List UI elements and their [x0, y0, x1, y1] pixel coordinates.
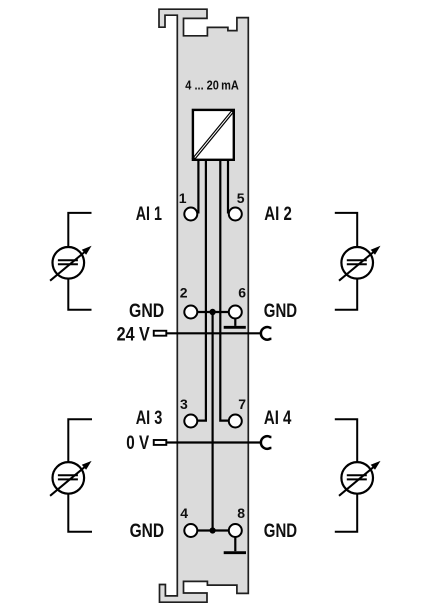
- terminal 4 contact: [184, 524, 197, 537]
- socket contact (24V rail, open semicircle): [261, 327, 272, 340]
- junction dot node GND row 4/8: [210, 527, 216, 533]
- svg-text:24 V: 24 V: [117, 323, 150, 345]
- 0V terminal box symbol: [154, 440, 167, 445]
- svg-text:AI 4: AI 4: [264, 407, 292, 429]
- terminal 1 contact: [184, 208, 197, 221]
- svg-text:GND: GND: [130, 520, 165, 542]
- svg-text:4: 4: [180, 505, 188, 521]
- wire from U1 pin c to terminal 7: [220, 159, 228, 421]
- current source G2 (top-right): [335, 213, 381, 310]
- terminal 2 contact: [184, 306, 197, 319]
- wire terminal2 to terminal6 (GND row): [191, 311, 236, 313]
- terminal body outline (DIN-rail housing): [159, 9, 248, 602]
- terminal 8 contact: [229, 524, 242, 537]
- svg-text:6: 6: [238, 284, 246, 300]
- socket contact (0V rail, open semicircle): [261, 436, 272, 449]
- wire 0V rail: [167, 441, 260, 443]
- wire from U1 pin b to terminal 3: [198, 159, 206, 421]
- terminal 6 contact: [229, 306, 242, 319]
- svg-text:2: 2: [180, 284, 188, 300]
- terminal 5 contact: [229, 208, 242, 221]
- svg-text:0 V: 0 V: [126, 432, 149, 454]
- wire GND bus (terminal 2/6 row down to 4/8 row): [212, 312, 214, 531]
- svg-text:GND: GND: [264, 300, 297, 322]
- wire terminal4 to terminal8 (GND row): [191, 529, 236, 531]
- terminal 7 contact: [229, 415, 242, 428]
- junction dot node GND row 2/6: [209, 309, 215, 315]
- svg-text:AI 1: AI 1: [136, 203, 162, 225]
- svg-text:GND: GND: [264, 520, 297, 542]
- current source G3 (bottom-left): [50, 419, 92, 531]
- svg-text:3: 3: [180, 396, 188, 412]
- terminal 3 contact: [184, 415, 197, 428]
- svg-text:8: 8: [237, 505, 245, 521]
- current source G4 (bottom-right): [335, 419, 381, 531]
- ground symbol under terminal 8: [224, 531, 246, 553]
- svg-text:5: 5: [237, 190, 245, 206]
- svg-text:AI 3: AI 3: [136, 407, 163, 429]
- ground symbol under terminal 6: [224, 312, 246, 327]
- current source G1 (top-left): [50, 213, 92, 310]
- wire from U1 pin d to terminal 5: [227, 159, 229, 214]
- wire 24V rail: [167, 332, 260, 334]
- wire from U1 pin a to terminal 1: [197, 159, 199, 214]
- svg-text:1: 1: [179, 190, 187, 206]
- 24V terminal box symbol: [154, 331, 167, 336]
- svg-text:AI 2: AI 2: [264, 203, 292, 225]
- svg-text:4 ... 20 mA: 4 ... 20 mA: [185, 78, 239, 92]
- transducer U1 (A/D converter block): [193, 110, 234, 160]
- svg-text:GND: GND: [129, 300, 164, 322]
- svg-text:7: 7: [238, 396, 246, 412]
